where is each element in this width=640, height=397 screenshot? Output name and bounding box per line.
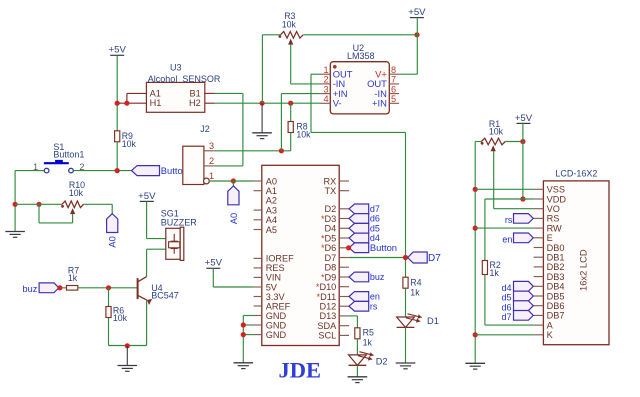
svg-text:5V: 5V [266,282,278,292]
svg-text:Button: Button [370,242,397,253]
svg-text:A0: A0 [266,176,277,186]
svg-text:D13: D13 [319,311,336,321]
svg-text:A1: A1 [266,186,277,196]
svg-text:J2: J2 [200,124,210,134]
svg-text:VO: VO [547,204,560,214]
svg-text:RS: RS [547,214,560,224]
svg-text:rs: rs [370,301,378,311]
svg-text:D7: D7 [428,253,441,264]
svg-text:*D9: *D9 [321,272,336,282]
svg-text:1k: 1k [68,273,78,283]
svg-text:Button1: Button1 [53,150,84,160]
svg-text:DB7: DB7 [547,311,565,321]
svg-text:U3: U3 [170,62,182,72]
svg-text:D4: D4 [325,224,337,234]
svg-text:D12: D12 [319,302,336,312]
svg-text:10k: 10k [69,188,84,198]
svg-text:DB4: DB4 [547,282,565,292]
svg-text:d6: d6 [501,302,511,312]
svg-text:D1: D1 [427,316,439,326]
svg-text:D2: D2 [325,204,337,214]
svg-text:H2: H2 [189,98,201,108]
svg-text:A4: A4 [266,215,277,225]
svg-text:+5V: +5V [408,7,426,18]
svg-text:2: 2 [209,156,214,166]
svg-text:IOREF: IOREF [266,254,294,264]
svg-text:D7: D7 [325,253,337,263]
svg-text:DB5: DB5 [547,291,565,301]
svg-text:B1: B1 [190,88,201,98]
svg-text:GND: GND [266,311,287,321]
svg-text:3.3V: 3.3V [266,292,286,302]
svg-text:BUZZER: BUZZER [161,217,198,227]
svg-text:3: 3 [323,84,328,94]
svg-text:10k: 10k [489,127,504,137]
svg-text:SDA: SDA [317,321,337,331]
svg-text:RX: RX [324,176,337,186]
svg-text:6: 6 [391,84,396,94]
svg-text:VIN: VIN [266,273,281,283]
svg-text:*D11: *D11 [317,292,337,302]
svg-text:*D5: *D5 [321,233,336,243]
svg-text:A0: A0 [108,236,118,247]
svg-text:rs: rs [505,215,513,225]
svg-text:V-: V- [333,98,342,109]
svg-text:*D10: *D10 [316,282,336,292]
svg-text:RW: RW [547,223,562,233]
svg-text:+5V: +5V [138,191,156,202]
svg-text:AREF: AREF [266,301,291,311]
svg-text:10k: 10k [122,139,137,149]
svg-text:A5: A5 [266,225,277,235]
svg-text:10k: 10k [296,130,311,140]
svg-text:A0: A0 [229,213,239,224]
svg-text:DB3: DB3 [547,272,565,282]
svg-text:RES: RES [266,263,285,273]
svg-text:4: 4 [323,94,328,104]
svg-text:A1: A1 [150,88,161,98]
svg-text:1: 1 [323,65,328,75]
svg-text:d5: d5 [370,224,380,234]
svg-text:A2: A2 [266,196,277,206]
svg-text:TX: TX [325,186,337,196]
svg-text:GND: GND [266,330,287,340]
svg-text:1k: 1k [490,268,500,278]
svg-text:d6: d6 [370,214,380,224]
svg-text:H1: H1 [150,98,162,108]
svg-text:5: 5 [391,94,396,104]
svg-text:+5V: +5V [515,113,533,124]
svg-text:A: A [547,320,554,330]
svg-text:BC547: BC547 [151,291,179,301]
svg-text:JDE: JDE [279,358,322,383]
svg-text:VSS: VSS [547,185,565,195]
svg-text:+5V: +5V [109,45,127,56]
svg-text:D2: D2 [376,356,388,366]
svg-text:1: 1 [209,171,214,181]
svg-text:K: K [547,330,554,340]
svg-text:en: en [502,234,512,244]
svg-text:d4: d4 [501,283,511,293]
svg-text:2: 2 [323,75,328,85]
svg-text:LM358: LM358 [347,51,375,61]
svg-text:7: 7 [391,75,396,85]
svg-text:SCL: SCL [318,331,336,341]
svg-text:d7: d7 [501,312,511,322]
svg-text:D8: D8 [325,263,337,273]
svg-text:3: 3 [209,141,214,151]
svg-text:DB0: DB0 [547,243,565,253]
svg-text:10k: 10k [282,19,297,29]
svg-text:VDD: VDD [547,194,567,204]
svg-text:GND: GND [266,320,287,330]
svg-text:1k: 1k [410,287,420,297]
svg-text:16x2 LCD: 16x2 LCD [578,249,589,291]
svg-text:d5: d5 [501,293,511,303]
svg-text:DB1: DB1 [547,253,565,263]
svg-text:R4: R4 [410,278,421,288]
svg-text:en: en [370,292,380,302]
svg-text:buz: buz [370,272,385,282]
svg-text:LCD-16X2: LCD-16X2 [555,169,597,179]
svg-text:R5: R5 [363,328,374,338]
svg-text:+5V: +5V [205,258,223,269]
svg-text:8: 8 [391,65,396,75]
svg-text:+IN: +IN [372,98,387,109]
svg-text:DB6: DB6 [547,301,565,311]
svg-text:1k: 1k [363,337,373,347]
svg-text:*D6: *D6 [321,243,336,253]
svg-text:*D3: *D3 [321,214,336,224]
svg-text:Alcohol SENSOR: Alcohol SENSOR [148,74,221,84]
svg-text:d7: d7 [370,204,380,214]
svg-text:DB2: DB2 [547,262,565,272]
svg-text:10k: 10k [113,313,128,323]
svg-text:A3: A3 [266,205,277,215]
svg-text:buz: buz [23,284,38,294]
svg-text:E: E [547,233,553,243]
